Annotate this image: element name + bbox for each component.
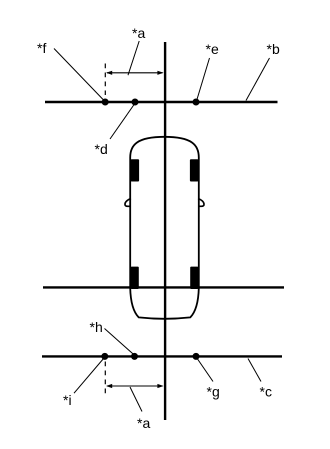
- top dimension arrow *a: [107, 72, 163, 74]
- svg-text:*b: *b: [267, 41, 280, 57]
- leader d: [110, 104, 135, 140]
- top reference line: [45, 101, 278, 103]
- leader g: [197, 358, 214, 382]
- car body outline: [130, 137, 199, 319]
- leader a bottom: [130, 387, 142, 412]
- vehicle centerline: [164, 42, 166, 420]
- leader e: [197, 58, 210, 101]
- bottom dimension arrow *a: [107, 385, 163, 387]
- leader a top: [128, 41, 139, 75]
- svg-text:*a: *a: [132, 25, 145, 41]
- left mirror: [125, 199, 131, 207]
- leader c: [248, 359, 261, 382]
- svg-text:*e: *e: [206, 41, 219, 57]
- point h dot: [131, 353, 138, 360]
- leader i: [74, 358, 104, 394]
- svg-text:*a: *a: [137, 415, 150, 431]
- wheel front-right: [190, 159, 199, 181]
- svg-text:*c: *c: [260, 383, 272, 399]
- right mirror: [198, 199, 204, 207]
- svg-text:*g: *g: [207, 383, 220, 399]
- top dashed extension line: [104, 64, 106, 96]
- bottom dashed extension line: [104, 362, 106, 395]
- wheel front-left: [131, 159, 140, 181]
- point i dot: [101, 353, 108, 360]
- point d dot: [132, 99, 139, 106]
- leader f: [54, 49, 105, 102]
- leader h: [105, 329, 135, 355]
- bottom reference line: [42, 355, 282, 357]
- point e dot: [193, 99, 200, 106]
- middle reference line: [43, 286, 284, 288]
- leader b: [246, 58, 270, 101]
- svg-text:*i: *i: [63, 392, 72, 408]
- svg-text:*d: *d: [95, 141, 108, 157]
- svg-text:*h: *h: [90, 319, 103, 335]
- wheel rear-right: [190, 267, 198, 289]
- point f dot: [102, 99, 109, 106]
- svg-text:*f: *f: [37, 40, 46, 56]
- point g dot: [193, 353, 200, 360]
- wheel rear-left: [131, 267, 139, 289]
